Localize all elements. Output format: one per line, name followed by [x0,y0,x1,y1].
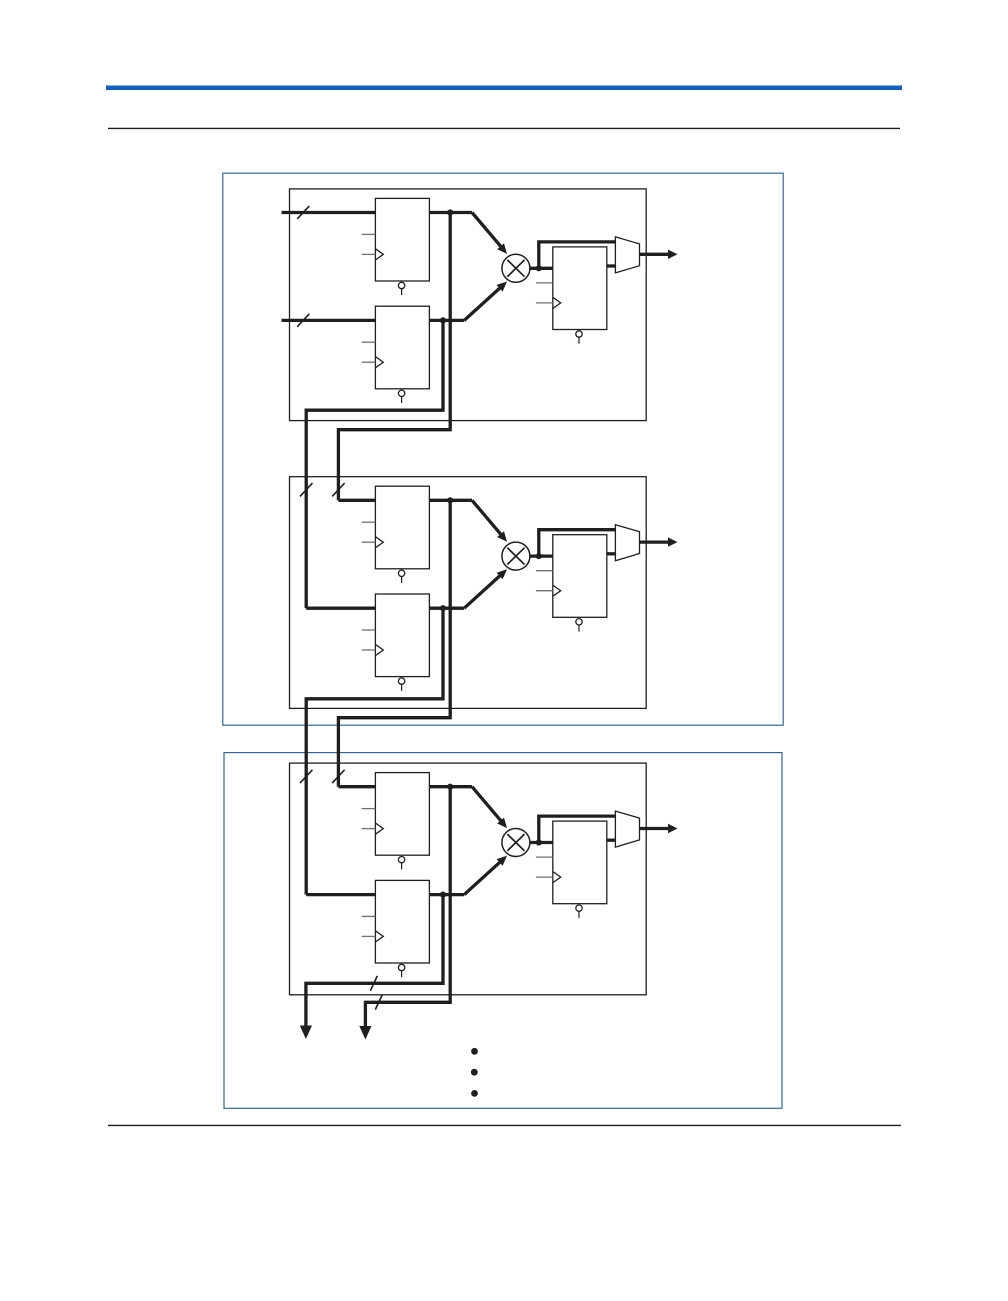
wire: slice 1 A cascade down to slice 2 [338,213,450,501]
slice 1 output mux [615,237,639,273]
slice 3 multiplier [502,829,530,857]
slice 2 wire: result output arrow [640,537,678,546]
slice 1 wire: B operand bus into multiplier [282,282,508,321]
slice 3 node: B output junction [440,892,446,898]
slice 2 bus-width slash on B cascade input [300,483,312,496]
slice 3 bus-width slash on A exit [375,995,382,1010]
register A1 (operand A) [362,198,430,295]
slice 1 bus-width slash on A input [297,206,309,219]
slice 2 wire: multiplier output [530,554,553,557]
slice 1 wire: multiplier output [530,267,553,270]
slice 1 wire: A operand bus into multiplier [282,213,508,254]
wire: slice 2 A cascade down to slice 3 [338,500,450,786]
slice 3 node: A output junction [447,784,453,790]
slice 1 node: multiplier output junction [536,265,542,271]
slice 2 output mux [615,525,639,561]
figure frame: multiplier cascade group 1 [223,173,783,725]
slice 3 bus-width slash on B exit [370,976,377,991]
slice 2 node: A output junction [447,497,453,503]
wire: slice 1 B cascade down to slice 2 [306,320,443,608]
slice 1 node: A output junction [447,209,453,215]
slice 2 wire: A operand bus into multiplier [338,500,507,541]
slice 3 block outline [290,763,647,995]
slice 2 wire: B operand bus into multiplier [306,569,507,608]
slice 3 wire: A operand bus into multiplier [338,787,507,828]
register A2 (operand A) [362,486,430,583]
slice 2 wire: multiplier bypass to mux [539,530,616,556]
slice 3 node: multiplier output junction [536,839,542,845]
slice 3 bus-width slash on B cascade input [300,770,312,783]
slice 2 bus-width slash on A cascade input [332,483,344,496]
slice 1 bus-width slash on B input [297,314,309,327]
register B3 (operand B) [362,880,430,977]
header rule (thin black) [108,127,900,129]
slice 1 wire: result output arrow [640,250,678,259]
continuation ellipsis dots [471,1048,478,1097]
header rule (thick blue) [106,86,902,91]
wire: slice 3 B cascade exit (down arrow) [300,895,443,1039]
register P2 (pipeline) [536,535,607,632]
register P1 (pipeline) [536,247,607,344]
slice 1 wire: pipeline register to mux [607,264,616,267]
slice 1 multiplier [502,254,530,282]
register A3 (operand A) [362,773,430,870]
slice 2 node: multiplier output junction [536,553,542,559]
register P3 (pipeline) [536,821,607,918]
slice 1 node: B output junction [440,317,446,323]
slice 1 block outline [290,189,647,421]
slice 2 block outline [290,477,647,709]
wire: slice 2 B cascade down to slice 3 [306,608,443,894]
slice 1 wire: multiplier bypass to mux [539,242,616,268]
slice 3 wire: multiplier bypass to mux [539,816,616,842]
footer rule (thin black) [108,1124,901,1126]
slice 3 wire: multiplier output [530,841,553,844]
figure frame: multiplier cascade group 2 [224,753,782,1109]
slice 3 bus-width slash on A cascade input [332,770,344,783]
slice 2 node: B output junction [440,605,446,611]
slice 3 wire: B operand bus into multiplier [306,856,507,895]
register B1 (operand B) [362,306,430,403]
slice 3 wire: pipeline register to mux [607,839,616,842]
wire: slice 3 A cascade exit (down arrow) [359,787,450,1040]
register B2 (operand B) [362,594,430,691]
slice 2 multiplier [502,542,530,570]
slice 3 output mux [615,811,639,847]
slice 2 wire: pipeline register to mux [607,552,616,555]
slice 3 wire: result output arrow [640,824,678,833]
